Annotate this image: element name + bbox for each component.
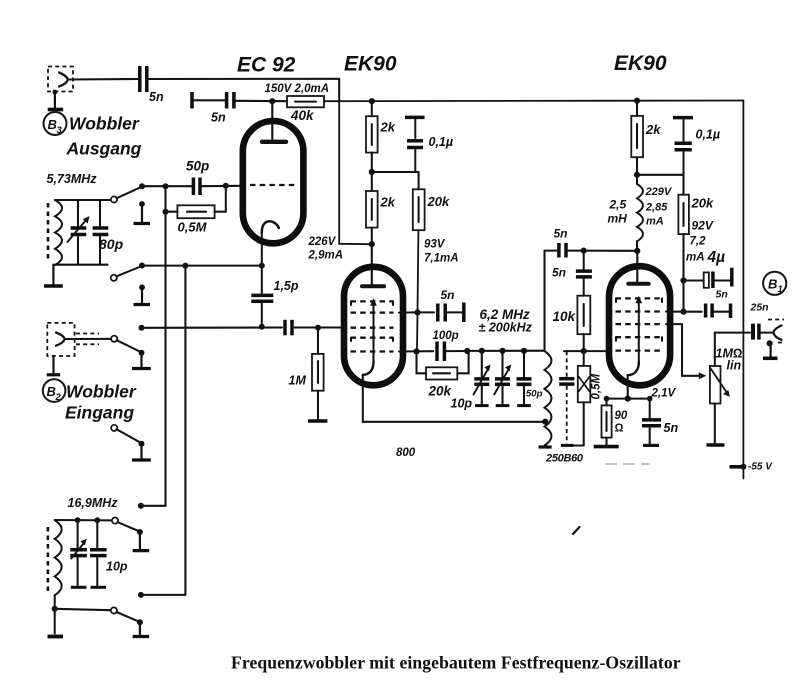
svg-text:Frequenzwobbler mit eingebaute: Frequenzwobbler mit eingebautem Festfreq… [231, 653, 681, 673]
svg-text:10p: 10p [106, 560, 128, 574]
resistor 2k (lower, screen) [366, 172, 396, 244]
node g1 EK90 II [581, 348, 587, 354]
stray tick mark [573, 527, 580, 534]
svg-text:50p: 50p [526, 389, 543, 400]
capacitor 25n output [750, 302, 774, 340]
wire 20k down to grid rows [417, 230, 418, 351]
wire down to 0,5M [225, 186, 227, 212]
capacitor 5n (g1 series) [285, 320, 292, 336]
resistor 2k (EK90 II anode) [631, 101, 661, 175]
svg-text:2,5: 2,5 [609, 198, 627, 212]
svg-text:1,5p: 1,5p [274, 279, 299, 293]
EK90 I grid g1 row (dashed) [351, 300, 394, 302]
wire 5n to anode node EK90 II [568, 250, 638, 252]
EC92 grid (dashed) [250, 184, 296, 186]
wire 5n feedback row [545, 250, 558, 252]
capacitor 5n cathode bypass [642, 399, 678, 446]
wire padder to 0,5M bottom [573, 444, 583, 446]
svg-text:5n: 5n [211, 111, 226, 125]
capacitor 100p [417, 330, 468, 361]
switch S1a upper (5,73MHz select) [111, 187, 142, 203]
svg-text:5n: 5n [554, 227, 568, 241]
EK90 I grid g4 row (dashed) [351, 337, 394, 339]
trimmer capacitor tank3 [70, 520, 87, 587]
svg-text:150V 2,0mA: 150V 2,0mA [265, 83, 330, 95]
EK90 II grid rows (dashed) [616, 297, 663, 299]
wire g1 row EK90 II [564, 350, 610, 352]
svg-text:800: 800 [396, 447, 416, 459]
EC92 cathode hook [262, 221, 279, 232]
svg-text:4µ: 4µ [707, 249, 726, 266]
svg-text:5n: 5n [552, 266, 566, 280]
trimmer capacitor tank2 b [494, 348, 511, 406]
triode EC92 envelope [243, 121, 304, 243]
capacitor 0,1u (EK90 I) [405, 117, 453, 172]
resistor 40k (EC92 anode load) [265, 83, 330, 123]
node coil tap [542, 419, 548, 425]
ground contact S2a [132, 350, 151, 369]
jack B1 output socket [768, 320, 784, 343]
svg-text:Ω: Ω [615, 423, 624, 435]
inductor L3 6,2MHz coil [545, 351, 552, 446]
EK90 I grid g5 row (dashed) [351, 350, 394, 352]
heptode EK90 I envelope [344, 267, 403, 386]
svg-text:2,1V: 2,1V [651, 388, 677, 400]
resistor 20k parallel loop [417, 351, 469, 399]
faint dash residue [605, 463, 650, 465]
svg-text:229V: 229V [645, 186, 673, 198]
wire tank3 bottom [55, 609, 111, 610]
svg-text:2k: 2k [380, 195, 396, 210]
wire bar to 5n [194, 99, 226, 101]
contact 16,9 lower to bus2 [138, 592, 186, 598]
EK90 II cathode lead [627, 375, 629, 398]
wire g4 exit to 100p [399, 350, 417, 352]
EK90 II anode bar [628, 282, 648, 286]
terminal stem and bar above B3 circle [48, 90, 64, 110]
node g2 stub [414, 309, 420, 315]
node g1 row left end [139, 325, 145, 331]
svg-text:7,1mA: 7,1mA [424, 253, 459, 265]
resistor 90 Ohm [594, 399, 628, 447]
ground contact S2b [132, 441, 151, 460]
svg-text:5n: 5n [441, 288, 455, 302]
grid row1 end ticks [350, 301, 352, 305]
svg-text:Eingang: Eingang [65, 403, 134, 423]
resistor 1M (EK90 I grid leak) [289, 325, 328, 421]
trimmer capacitor of tank1 [68, 200, 90, 265]
wire tank1 top [55, 199, 112, 201]
node 2k junction [369, 169, 375, 175]
node EC92 anode [269, 98, 275, 104]
switch S3a (16,9 upper) [112, 518, 140, 532]
wire right rail down [742, 101, 744, 479]
wire 226V drop to EK90 anode [339, 101, 372, 244]
svg-text:20k: 20k [691, 196, 714, 211]
svg-text:B: B [768, 277, 777, 292]
wire 5n to EC92 anode node corner [149, 79, 340, 101]
node tank2 left [464, 348, 470, 354]
inductor 2,5mH [608, 175, 673, 251]
EC92 anode lead [271, 101, 273, 139]
wire riser tank2 to 5n row [543, 251, 545, 351]
EK90 II cathode stem with tip [628, 296, 642, 376]
svg-text:5n: 5n [149, 90, 164, 104]
svg-text:2: 2 [55, 392, 62, 403]
svg-text:80p: 80p [99, 236, 124, 252]
EK90 II anode lead [636, 251, 638, 282]
svg-text:0,1µ: 0,1µ [429, 135, 454, 149]
svg-text:5n: 5n [716, 289, 728, 301]
wire bus1 (oscillator select bus) [164, 186, 166, 506]
ground below jack B1 [763, 340, 778, 358]
EK90 I cathode stem with tip [363, 298, 377, 375]
resistor 20k (EK90 I screen feed) [413, 172, 450, 230]
switch S2a (input select) [111, 336, 141, 353]
svg-text:1: 1 [778, 284, 783, 295]
node rail / 2k EK90 II [634, 98, 640, 104]
svg-text:5,73MHz: 5,73MHz [47, 172, 98, 186]
capacitor 5n stub on g2 [418, 288, 464, 322]
svg-text:Wobbler: Wobbler [66, 382, 137, 402]
wire B+ rail [324, 100, 743, 103]
svg-text:EK90: EK90 [614, 52, 667, 75]
svg-text:mA: mA [646, 216, 664, 228]
wire coil bottom to ground [48, 595, 64, 636]
wire EC92 cathode row [142, 265, 262, 267]
capacitor 10p tank3 [90, 520, 128, 587]
node rail / 2k [369, 98, 375, 104]
svg-text:92V: 92V [692, 219, 714, 233]
EC92 anode bar [262, 140, 286, 144]
switch S2b lower [111, 425, 141, 443]
wire g4 takeoff to potentiometer [666, 324, 700, 376]
svg-text:mA: mA [686, 252, 705, 264]
terminal stem below B2 box [47, 356, 61, 375]
svg-text:20k: 20k [428, 384, 453, 399]
EK90 I grid g3 row (dashed) [351, 327, 394, 329]
ground contact S3a [133, 529, 150, 551]
node grid leak junction [223, 183, 229, 189]
trimmer capacitor tank2 a [474, 348, 491, 406]
resistor 10k [553, 279, 591, 352]
svg-text:Wobbler: Wobbler [69, 114, 140, 134]
svg-text:10k: 10k [553, 309, 577, 324]
node screen bypass [680, 277, 686, 283]
svg-text:2k: 2k [380, 120, 396, 135]
svg-text:93V: 93V [424, 239, 446, 251]
grid row4 end ticks [350, 338, 352, 341]
dashed padder link [559, 351, 574, 445]
svg-text:10p: 10p [451, 397, 473, 411]
svg-text:lin: lin [727, 359, 742, 373]
node contact on grid row [139, 183, 145, 189]
wire EK90 I cathode return [363, 375, 547, 422]
svg-text:EK90: EK90 [344, 53, 397, 76]
wire tank3 top [55, 519, 112, 521]
node g2 row EK90 II [680, 309, 686, 315]
svg-text:7,2: 7,2 [690, 236, 707, 248]
EK90 I anode lead [371, 244, 373, 284]
wire B3 jack to 5n coupling cap [68, 78, 139, 81]
potentiometer 1M lin [707, 333, 743, 445]
EC92 cathode lead [261, 233, 263, 266]
svg-text:± 200kHz: ± 200kHz [479, 321, 533, 335]
svg-text:40k: 40k [290, 108, 315, 123]
capacitor 5n (B3 output coupling) [140, 66, 164, 104]
heptode EK90 II envelope [609, 266, 670, 385]
svg-text:50p: 50p [186, 159, 209, 174]
EK90 I grid g2 row (dashed) [351, 311, 394, 313]
wire 5n to anode node [236, 100, 288, 102]
svg-text:0,5M: 0,5M [178, 220, 208, 235]
wire g2 exit to 5n stub [399, 311, 418, 313]
wire tank2 top row [467, 350, 544, 352]
shield dashes of L1 [47, 203, 50, 262]
capacitor 50p tank2 [517, 348, 543, 406]
capacitor 0,1u (EK90 II) [673, 118, 720, 175]
terminal -55V [730, 462, 774, 473]
svg-text:100p: 100p [433, 330, 459, 342]
wire bus2 (16,9MHz select bus) [184, 266, 186, 595]
wire g1 row to EK90 I (right part) [295, 326, 345, 328]
svg-text:EC 92: EC 92 [237, 54, 296, 77]
capacitor 4u electrolytic [684, 268, 732, 288]
node anode EK90 I [369, 241, 375, 247]
wire junction row II [637, 174, 684, 176]
resistor 20k (EK90 II screen) [678, 175, 714, 281]
svg-text:16,9MHz: 16,9MHz [68, 496, 119, 510]
wire screen chain down [682, 281, 684, 312]
capacitor 5n (feedback top) [554, 227, 568, 258]
jack B3 (Wobbler Ausgang) shielded socket [48, 67, 73, 92]
svg-text:90: 90 [615, 410, 628, 422]
svg-text:B: B [47, 384, 56, 399]
resistor 2k (upper) [366, 101, 396, 172]
svg-text:3: 3 [57, 125, 63, 136]
node feedback chain [581, 248, 587, 254]
wire junction row to 0,1u / 20k [372, 171, 419, 173]
svg-text:2,85: 2,85 [645, 202, 668, 214]
wire pot to output cap [715, 332, 750, 334]
EK90 I anode bar [362, 284, 384, 288]
contact 16,9 upper to bus1 [138, 503, 166, 509]
node 2k / 0,1u junction [634, 172, 640, 178]
resistor 0,5M (grid leak) [163, 205, 226, 234]
svg-text:B: B [48, 117, 57, 132]
shield dashes of L2 [47, 527, 50, 591]
svg-text:2,9mA: 2,9mA [308, 250, 344, 262]
capacitor 80p of tank1 [93, 200, 124, 265]
node g4/100p [413, 348, 419, 354]
node bus1 top [163, 183, 169, 189]
jack B2 (Wobbler Eingang) shielded socket [47, 323, 99, 356]
ground below tank1 [44, 265, 63, 286]
unused ground contact of S1a [134, 201, 151, 223]
capacitor 1,5p (feedback) [251, 266, 299, 330]
inductor L1 5,73MHz coil [55, 200, 62, 265]
svg-text:226V: 226V [308, 236, 337, 248]
capacitor 50p (EC92 grid coupling) [186, 159, 209, 196]
svg-text:Ausgang: Ausgang [66, 139, 142, 159]
unused ground contact of S1b [134, 284, 151, 304]
inductor L2 16,9MHz coil [55, 520, 62, 595]
L3 end bar [539, 445, 552, 448]
wire g2 exit EK90 II [666, 310, 684, 312]
svg-text:250B60: 250B60 [545, 453, 584, 465]
svg-text:5n: 5n [664, 421, 679, 435]
svg-text:mH: mH [608, 212, 628, 226]
wire cathode row II [607, 398, 650, 400]
capacitor 5n (g2 bypass) [684, 304, 731, 319]
wire g1 row to EK90 I (left part) [142, 326, 283, 328]
node B1 designator circle [763, 272, 786, 295]
ground contact S3b [133, 619, 150, 636]
node B2 designator circle [43, 379, 66, 403]
wire B2 jack to switch [65, 338, 112, 340]
node B3 designator circle [44, 112, 67, 136]
wire 50p to EC92 grid [202, 185, 242, 187]
svg-text:1M: 1M [289, 374, 307, 388]
svg-text:-55 V: -55 V [748, 462, 773, 473]
svg-text:25n: 25n [750, 302, 769, 314]
capacitor 5n (anode line) [211, 92, 234, 125]
wire grid row to 50p [142, 185, 193, 187]
wire tank1 bottom [53, 264, 107, 266]
svg-text:2k: 2k [645, 122, 661, 137]
switch S1b lower [111, 266, 142, 281]
switch S3b (16,9 lower) [111, 607, 140, 622]
node anode / coil [634, 248, 640, 254]
svg-text:0,5M: 0,5M [591, 374, 603, 400]
terminal bar of 5n anode-line cap [190, 92, 194, 109]
capacitor 5n (feedback second) [552, 251, 592, 280]
resistor 0,5M preset (crossed) [578, 351, 603, 445]
svg-text:20k: 20k [427, 194, 450, 209]
svg-text:0,1µ: 0,1µ [696, 128, 721, 142]
